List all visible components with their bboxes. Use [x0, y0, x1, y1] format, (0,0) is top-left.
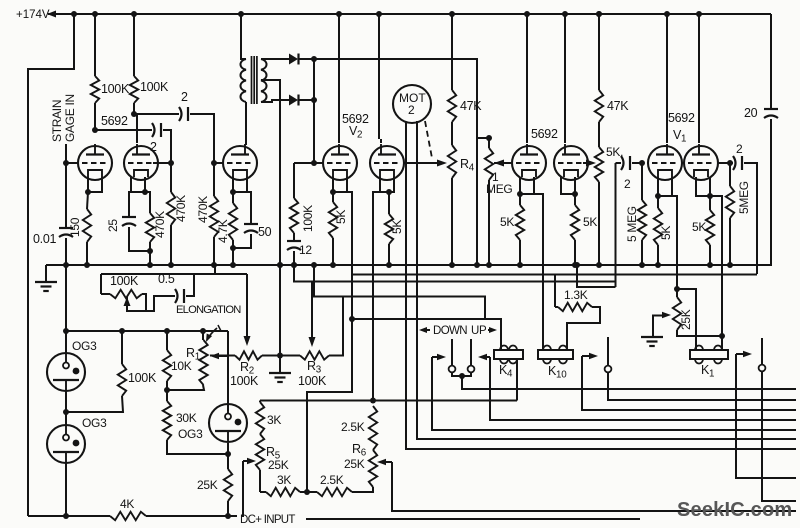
svg-text:5692: 5692: [101, 114, 128, 128]
potentiometer 25K balance: [673, 289, 722, 336]
svg-text:SeekIC.com: SeekIC.com: [677, 499, 792, 521]
wire motor lead A to bottom bus: [406, 122, 796, 449]
capacitor 2 coupling tube1 plate to tube2 grid: [95, 123, 171, 163]
wire relay K10 arm arrow: [582, 353, 796, 410]
svg-text:5692: 5692: [668, 111, 695, 125]
svg-text:MEG: MEG: [486, 182, 512, 196]
tube V-driver triode: [214, 144, 257, 180]
svg-text:OG3: OG3: [82, 416, 107, 430]
wire common cathode rail: [46, 264, 772, 266]
svg-text:1.3K: 1.3K: [564, 288, 588, 302]
svg-text:5 MEG: 5 MEG: [625, 206, 639, 242]
svg-text:2: 2: [736, 142, 743, 156]
capacitor 20 supply bypass: [744, 14, 778, 265]
wire DC input rail right: [306, 518, 640, 520]
svg-text:3K: 3K: [267, 413, 281, 427]
svg-text:5K: 5K: [583, 215, 597, 229]
svg-text:5MEG: 5MEG: [737, 181, 751, 214]
tube V1 triode B: [684, 14, 718, 180]
wire tube2 cathode legs: [131, 177, 148, 195]
svg-text:5K: 5K: [390, 220, 404, 234]
capacitor 2 coupling tube2 plate to tube3 grid: [134, 90, 214, 163]
svg-text:47K: 47K: [607, 99, 629, 113]
resistor 5K V1B cathode: [692, 196, 714, 268]
svg-text:4K: 4K: [120, 497, 134, 511]
node +174V supply label: [16, 9, 50, 21]
tube V2 triode B: [370, 14, 404, 180]
svg-text:0.01: 0.01: [33, 232, 56, 246]
wire V2B grid to R4 wiper arrow: [404, 160, 447, 167]
resistor 5 MEG V1 grid leak: [625, 163, 646, 268]
wire top +174V rail with feed arrow: [47, 11, 771, 18]
potentiometer R3 100K: [280, 283, 343, 389]
resistor 2.5K upper: [341, 406, 377, 450]
svg-text:100K: 100K: [301, 205, 315, 232]
resistor 100K plate R of tube1: [91, 14, 130, 133]
capacitor 2 coupling mid tube to V1 grid: [616, 156, 646, 287]
resistor 47K second: [595, 11, 630, 147]
resistor 470K tube2 cathode: [145, 192, 167, 268]
tube V1 triode A: [648, 14, 682, 180]
svg-text:OG3: OG3: [178, 427, 203, 441]
svg-text:2: 2: [408, 103, 415, 117]
svg-text:2.5K: 2.5K: [341, 420, 365, 434]
potentiometer 5K feedback: [595, 145, 623, 268]
svg-text:100K: 100K: [128, 371, 157, 385]
wire midA cathode to relay K10: [534, 194, 543, 350]
potentiometer R4: [448, 145, 475, 268]
svg-text:100K: 100K: [140, 80, 169, 94]
resistor 100K plate R of tube2: [130, 14, 169, 117]
capacitor 12 V2 grid: [287, 241, 312, 268]
wire bus B R3 wiper line: [291, 262, 616, 282]
resistor 47K to R4: [448, 14, 483, 145]
wire 3K top rail to R6 top: [260, 398, 517, 404]
wire V1B cathode legs: [696, 177, 713, 199]
switch contact DOWN: [449, 339, 462, 376]
wire transformer secondary top lead: [261, 58, 289, 60]
potentiometer R6 25K: [344, 442, 392, 487]
wire V1A cathode to 25K pot top: [672, 196, 680, 292]
tube OG3 second: [47, 416, 107, 463]
wire V2B cathode to R6 network: [373, 192, 380, 400]
wire reference rail 2: [63, 265, 228, 334]
resistor 5K V1A cathode: [654, 196, 673, 268]
svg-text:25: 25: [106, 219, 120, 232]
relay K10: [538, 346, 573, 381]
node STRAIN GAGE IN input: [50, 94, 77, 163]
wire V1B grid node: [718, 160, 733, 166]
svg-text:150: 150: [68, 217, 82, 237]
svg-text:+174V: +174V: [16, 9, 50, 21]
resistor 5K V2B cathode: [385, 192, 404, 268]
wire midB grid to 5K pot wiper: [583, 160, 596, 167]
svg-text:3K: 3K: [277, 473, 291, 487]
wire V1A cathode legs: [655, 177, 672, 199]
resistor 30K: [163, 390, 228, 454]
wire R2 wiper feed from rail: [101, 265, 251, 346]
relay K4: [494, 346, 523, 380]
svg-text:25K: 25K: [344, 457, 365, 471]
svg-text:DC+ INPUT: DC+ INPUT: [240, 514, 295, 526]
svg-text:20: 20: [744, 106, 758, 120]
resistor 3K upper: [256, 401, 282, 435]
wire contact common to bus: [459, 373, 796, 389]
svg-text:5K: 5K: [334, 210, 348, 224]
potentiometer 1 MEG: [477, 135, 512, 268]
svg-text:470K: 470K: [196, 196, 210, 223]
svg-text:5692: 5692: [531, 127, 558, 141]
wire contact arm arrow DOWN side: [432, 354, 796, 430]
svg-text:25K: 25K: [679, 309, 693, 330]
tube OG3 first: [47, 331, 97, 391]
resistor 10K: [163, 331, 192, 393]
svg-text:47K: 47K: [460, 99, 482, 113]
resistor 5K midA cathode: [500, 194, 524, 268]
svg-text:2: 2: [624, 177, 631, 191]
tube OG3 third: [209, 404, 247, 457]
label DC+ INPUT: [240, 514, 295, 526]
svg-text:100K: 100K: [230, 374, 259, 388]
relay K1: [690, 346, 728, 380]
label 5692 V2: [342, 112, 369, 141]
tube V-input triode A: [63, 144, 112, 180]
wire contact arm arrow UP side: [478, 354, 796, 420]
potentiometer R1 10K: [167, 331, 208, 390]
svg-text:5K: 5K: [659, 226, 673, 240]
wire midA cathode legs: [517, 177, 534, 197]
wire relay K4 coil feed: [352, 319, 501, 350]
svg-text:GAGE IN: GAGE IN: [63, 94, 77, 142]
svg-text:STRAIN: STRAIN: [50, 100, 64, 142]
resistor 4.7K tube3 cathode: [216, 192, 237, 268]
svg-text:100K: 100K: [110, 274, 139, 288]
wire V2 grid line: [294, 162, 322, 164]
diode rectifier top: [289, 54, 317, 65]
svg-text:5K: 5K: [500, 215, 514, 229]
resistor 25K OG3 cathode: [197, 443, 232, 519]
label ELONGATION with pointer: [176, 304, 241, 342]
resistor 1.3K: [555, 275, 600, 351]
switch contact UP: [462, 339, 474, 376]
motor MOT 2: [393, 85, 431, 123]
wire relay K4 right to R5 network: [516, 360, 518, 401]
wire relay K1 arm arrow: [736, 351, 796, 478]
tube V2 triode A: [323, 14, 357, 180]
resistor 470K tube3 grid leak: [196, 160, 218, 268]
resistor 100K V2 grid: [290, 163, 315, 240]
label 5692 mid tube: [531, 127, 558, 141]
svg-text:UP: UP: [471, 325, 487, 337]
wire transformer center tap to ground bus: [261, 80, 283, 268]
svg-text:470K: 470K: [174, 195, 188, 222]
svg-text:2: 2: [181, 90, 188, 104]
wire rectifier junction down to V2 grid: [311, 59, 317, 166]
svg-text:0.5: 0.5: [158, 272, 175, 286]
switch contact K10 side: [605, 337, 796, 400]
svg-text:5K: 5K: [692, 220, 706, 234]
wire R6 wiper to bottom bus: [392, 462, 796, 511]
svg-text:2.5K: 2.5K: [320, 473, 344, 487]
wire OG3 second to DC input rail: [63, 463, 69, 519]
svg-text:2: 2: [150, 140, 157, 154]
resistor 470K tube2 grid leak: [167, 163, 188, 268]
wire DC input rail left with 4K: [28, 497, 237, 520]
wire 1MEG wiper to mid tube grid: [494, 160, 513, 167]
resistor 3K lower horizontal: [260, 473, 310, 496]
ground 25K wiper: [641, 312, 671, 346]
label 5692 input tube: [101, 114, 128, 128]
resistor 2.5K lower horizontal: [307, 473, 373, 496]
capacitor 2 V1 output: [733, 142, 757, 274]
potentiometer R2 100K: [210, 351, 280, 388]
wire OG3 first cathode junction: [63, 391, 69, 425]
label 5692 V1: [668, 111, 695, 145]
svg-text:DOWN: DOWN: [433, 325, 467, 337]
svg-text:25K: 25K: [268, 458, 289, 472]
svg-text:30K: 30K: [176, 411, 197, 425]
svg-text:50: 50: [258, 225, 272, 239]
resistor 5K midB cathode: [571, 194, 598, 268]
resistor 150 tube1 cathode: [68, 192, 91, 268]
resistor 5K V2A cathode: [329, 192, 348, 268]
wire bus A to V1 output cap: [352, 274, 757, 276]
wire transformer secondary bottom lead: [261, 100, 289, 102]
capacitor 0.5 elongation: [127, 272, 194, 311]
tube mid triode B: [554, 14, 588, 180]
potentiometer 100K elongation: [101, 274, 146, 311]
wire 25K pot top feed to relay K1 left: [677, 289, 696, 350]
wire tube3 cathode legs: [230, 177, 247, 195]
svg-text:OG3: OG3: [72, 339, 97, 353]
wire V1B cathode to relay K1 right: [696, 196, 725, 350]
svg-text:470K: 470K: [153, 211, 167, 238]
wire left border step from +174V rail: [28, 14, 74, 516]
svg-text:10K: 10K: [171, 359, 192, 373]
tube mid triode A: [512, 14, 546, 180]
svg-text:100K: 100K: [101, 82, 130, 96]
resistor 5MEG V1 output leak: [726, 163, 751, 268]
capacitor 25 tube2 cathode bypass: [106, 192, 153, 254]
resistor 100K OG3 bleeder: [66, 331, 157, 412]
wire V2A cathode legs: [330, 177, 347, 195]
wire V2B cathode legs: [380, 177, 394, 195]
watermark: [677, 499, 792, 521]
wire V2A cathode to lower network: [307, 192, 355, 492]
switch contact K1 side: [759, 338, 796, 501]
wire rectified output to 1MEG pot feed: [314, 59, 480, 268]
diode rectifier bottom: [289, 95, 317, 106]
ground main rail: [35, 265, 57, 291]
capacitor 0.01 input: [33, 163, 73, 268]
wire bus C to 25K pot and relay K1: [574, 262, 616, 287]
label DOWN UP with arrows: [419, 325, 497, 337]
wire motor lead B to bottom bus: [417, 121, 796, 439]
ground R2 R3 junction: [269, 262, 291, 382]
svg-text:12: 12: [299, 243, 312, 257]
transformer T1: [240, 14, 266, 145]
capacitor 50 tube3 cathode bypass: [233, 192, 272, 248]
svg-text:100K: 100K: [298, 374, 327, 388]
tube V-input triode B: [124, 114, 174, 180]
svg-text:25K: 25K: [197, 478, 218, 492]
potentiometer R5 25K: [243, 434, 289, 517]
wire bus D rectifier to R3 top and relay K4: [311, 262, 501, 319]
wire midB cathode legs: [561, 177, 578, 197]
wire tube1 cathode legs: [85, 177, 102, 195]
svg-text:4.7K: 4.7K: [216, 219, 230, 243]
svg-text:ELONGATION: ELONGATION: [176, 304, 241, 316]
wire rail2 end to R1 wiper and OG3 third: [210, 331, 228, 411]
wire motor mechanical link dashed: [425, 121, 432, 158]
